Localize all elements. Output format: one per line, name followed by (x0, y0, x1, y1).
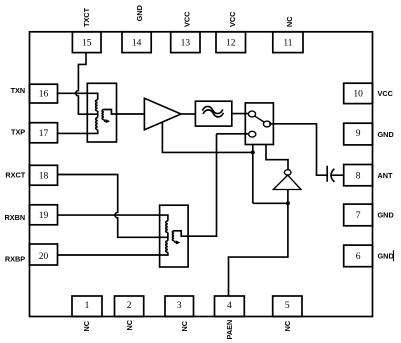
transformer TX balun box (87, 83, 116, 142)
switch pole TX contact (248, 111, 255, 117)
svg-text:14: 14 (132, 38, 142, 48)
pin 2 box (115, 296, 144, 317)
pin 13 box (171, 32, 200, 53)
pin 12 box (216, 32, 246, 53)
pin 19 box (30, 205, 58, 225)
svg-text:TXCT: TXCT (82, 7, 91, 27)
wire RX line into switch (217, 133, 249, 135)
pin 15 box (72, 32, 101, 53)
pin 18 box (30, 165, 58, 185)
wire switch to LNA input (266, 145, 288, 170)
filter wave symbol (202, 106, 222, 113)
wire RXBN from pin 19 (58, 215, 168, 221)
junction dot B (286, 201, 290, 205)
pin 16 box (30, 84, 58, 103)
wire LNA output down (229, 190, 288, 297)
switch SW1 box (245, 103, 273, 145)
svg-text:8: 8 (356, 171, 361, 181)
svg-text:10: 10 (353, 90, 363, 100)
svg-text:PAEN: PAEN (225, 320, 234, 340)
pin 20 box (30, 244, 58, 265)
pin 8 box (344, 165, 373, 186)
svg-text:VCC: VCC (378, 89, 394, 98)
svg-text:RXCT: RXCT (5, 171, 25, 180)
svg-text:RXBP: RXBP (5, 254, 25, 263)
pin 1 box (72, 296, 102, 317)
svg-text:GND: GND (378, 211, 394, 220)
wire RXCT from pin 18 (58, 175, 168, 238)
pin 9 box (344, 123, 373, 145)
wire RXBP from pin 20 (58, 252, 168, 255)
svg-text:18: 18 (39, 172, 49, 182)
svg-text:3: 3 (177, 301, 182, 311)
svg-text:2: 2 (127, 301, 132, 311)
wire TXN from pin 16 (58, 93, 98, 100)
RX balun primary coil (166, 221, 168, 252)
junction dot A (251, 150, 255, 154)
wire filter to switch (232, 113, 249, 115)
svg-text:19: 19 (39, 211, 49, 221)
op-amp LNA A2 (284, 170, 291, 175)
IC body outline (30, 32, 373, 317)
TX balun secondary coil with arrow (102, 110, 116, 120)
pin 4 box (215, 296, 245, 317)
pin 6 box (344, 245, 373, 267)
wire TX balun to PA (117, 113, 145, 115)
pin 7 box (344, 204, 373, 226)
pin 17 box (30, 123, 58, 143)
svg-text:ANT: ANT (378, 171, 394, 180)
transformer RX balun box (160, 205, 189, 267)
svg-text:NC: NC (125, 319, 134, 330)
pin 5 box (273, 296, 302, 317)
svg-text:TXN: TXN (11, 86, 26, 95)
svg-text:NC: NC (82, 320, 91, 331)
svg-text:5: 5 (285, 301, 290, 311)
RX balun secondary coil with arrow (172, 231, 188, 241)
pin 11 box (273, 32, 303, 53)
wire PA to filter (181, 113, 195, 115)
svg-text:RXBN: RXBN (5, 213, 26, 222)
capacitor C1 (327, 166, 344, 182)
pin 14 box (122, 32, 151, 53)
pin 3 box (165, 296, 194, 317)
pin number labels (39, 38, 363, 311)
wire switch common to antenna (269, 124, 327, 175)
pin 10 box (344, 83, 373, 103)
svg-text:16: 16 (39, 89, 49, 99)
svg-text:VCC: VCC (183, 11, 192, 27)
svg-text:VCC: VCC (228, 11, 237, 27)
svg-text:TXP: TXP (11, 128, 25, 137)
svg-text:20: 20 (39, 252, 49, 262)
svg-text:7: 7 (356, 211, 361, 221)
svg-text:GND: GND (378, 252, 394, 261)
svg-text:15: 15 (82, 38, 92, 48)
wire LNA junction to switch control (253, 202, 288, 204)
text cursor artifact after pin 6 label (393, 250, 394, 261)
svg-text:NC: NC (283, 320, 292, 331)
svg-text:1: 1 (85, 301, 90, 311)
svg-text:NC: NC (285, 16, 294, 27)
wire TXP from pin 17 (58, 130, 98, 134)
wire PA enable (162, 122, 252, 152)
svg-text:GND: GND (135, 5, 144, 21)
svg-text:NC: NC (180, 320, 189, 331)
svg-text:13: 13 (181, 38, 191, 48)
TX balun primary coil (96, 100, 98, 130)
wire switch control left (252, 145, 254, 204)
svg-text:GND: GND (378, 130, 394, 139)
filter FL1 box (195, 101, 231, 126)
switch pole RX contact (249, 131, 256, 137)
svg-text:11: 11 (283, 38, 292, 48)
wire RX balun to switch (188, 134, 216, 236)
svg-text:4: 4 (227, 301, 232, 311)
svg-text:17: 17 (39, 129, 49, 139)
switch arm (255, 116, 264, 122)
switch common contact (263, 121, 270, 127)
svg-text:9: 9 (356, 129, 361, 139)
wire TXCT from pin 15 (76, 53, 98, 114)
op-amp PA A1 (144, 98, 181, 130)
svg-text:12: 12 (226, 38, 236, 48)
svg-text:6: 6 (356, 252, 361, 262)
